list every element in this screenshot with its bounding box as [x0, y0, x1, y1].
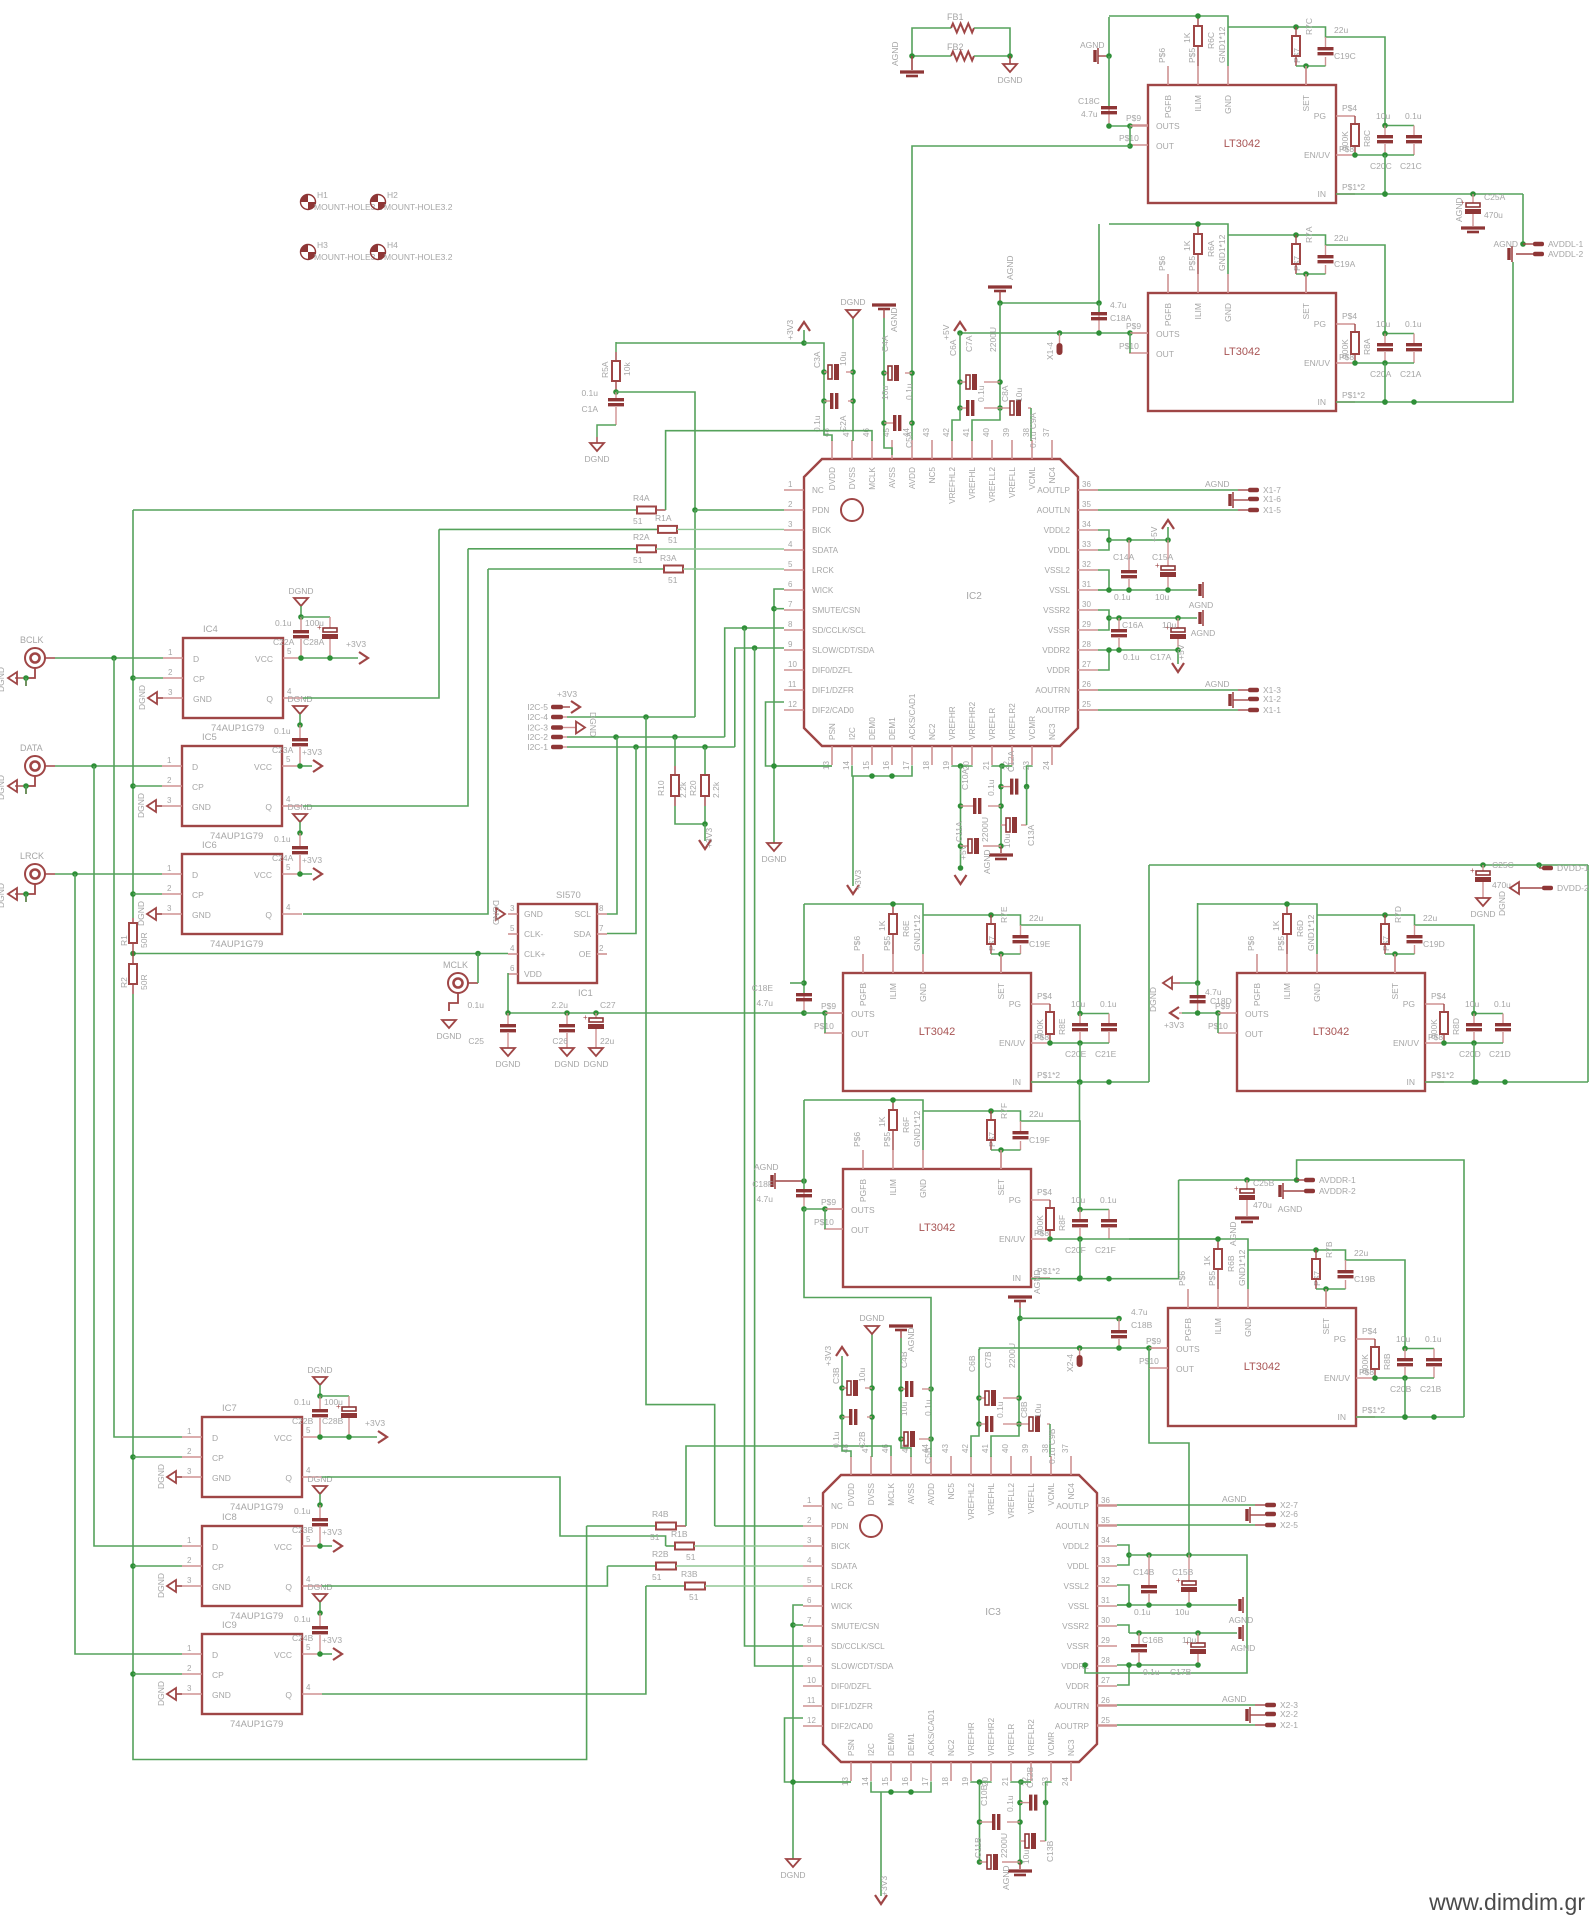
svg-text:22u: 22u [1029, 913, 1043, 923]
svg-text:C1A: C1A [581, 404, 598, 414]
svg-text:40: 40 [982, 428, 991, 437]
svg-text:X1-1: X1-1 [1263, 705, 1281, 715]
svg-text:X1-5: X1-5 [1263, 505, 1281, 515]
svg-text:GND: GND [1243, 1318, 1253, 1337]
svg-text:R8C: R8C [1362, 130, 1372, 147]
svg-text:19: 19 [942, 761, 951, 770]
svg-text:P$9: P$9 [1126, 113, 1141, 123]
svg-text:R20: R20 [688, 780, 698, 796]
svg-text:2: 2 [599, 944, 604, 953]
svg-text:AGND: AGND [1278, 1204, 1303, 1214]
svg-text:X2-1: X2-1 [1280, 1720, 1298, 1730]
svg-text:1K: 1K [1182, 32, 1192, 43]
svg-text:ILIM: ILIM [888, 1179, 898, 1196]
svg-text:0.1u: 0.1u [1405, 111, 1422, 121]
svg-text:+5V: +5V [1176, 644, 1186, 660]
svg-text:BICK: BICK [812, 526, 832, 535]
svg-text:R1: R1 [119, 935, 129, 946]
svg-text:AGND: AGND [1231, 1643, 1256, 1653]
svg-text:I2C: I2C [848, 727, 857, 740]
svg-text:+3V3: +3V3 [322, 1635, 342, 1645]
svg-text:AGND: AGND [1205, 679, 1230, 689]
svg-text:C17B: C17B [1170, 1667, 1192, 1677]
svg-text:DVDD-1: DVDD-1 [1557, 863, 1589, 873]
svg-text:C4A: C4A [880, 335, 890, 352]
svg-text:VSSL: VSSL [1049, 586, 1070, 595]
svg-text:AGND: AGND [1005, 255, 1015, 280]
svg-text:PGFB: PGFB [858, 983, 868, 1006]
svg-text:36: 36 [1082, 480, 1091, 489]
svg-text:R7F: R7F [999, 1103, 1009, 1119]
svg-text:OUT: OUT [851, 1225, 869, 1235]
svg-text:1: 1 [187, 1536, 192, 1545]
svg-text:31: 31 [1082, 580, 1091, 589]
svg-text:AGND: AGND [1229, 1615, 1254, 1625]
svg-text:0.1u: 0.1u [294, 1397, 311, 1407]
svg-text:22u: 22u [1334, 233, 1348, 243]
svg-text:470u: 470u [1484, 210, 1503, 220]
svg-text:DGND: DGND [780, 1870, 805, 1880]
svg-text:ACKS/CAD1: ACKS/CAD1 [908, 693, 917, 740]
svg-text:C20F: C20F [1065, 1245, 1086, 1255]
svg-text:CP: CP [193, 674, 205, 684]
svg-text:3: 3 [788, 520, 793, 529]
svg-text:2.2u: 2.2u [551, 1000, 568, 1010]
svg-text:1: 1 [167, 864, 172, 873]
svg-text:AGND: AGND [889, 307, 899, 332]
svg-text:17: 17 [902, 761, 911, 770]
svg-text:AOUTRP: AOUTRP [1055, 1722, 1090, 1731]
svg-text:18: 18 [922, 761, 931, 770]
svg-text:P$9: P$9 [821, 1197, 836, 1207]
svg-text:R6E: R6E [901, 920, 911, 937]
svg-text:34: 34 [1101, 1536, 1110, 1545]
svg-text:C19C: C19C [1334, 51, 1356, 61]
svg-text:OUTS: OUTS [851, 1205, 875, 1215]
svg-text:1: 1 [807, 1496, 812, 1505]
svg-text:OUTS: OUTS [1156, 121, 1180, 131]
svg-text:VCC: VCC [254, 762, 272, 772]
svg-text:8: 8 [788, 620, 793, 629]
svg-text:VREFLL: VREFLL [1008, 467, 1017, 498]
svg-text:4: 4 [306, 1683, 311, 1692]
svg-text:10u: 10u [1014, 388, 1024, 402]
svg-text:AOUTLN: AOUTLN [1056, 1522, 1089, 1531]
svg-text:IC3: IC3 [985, 1607, 1001, 1618]
svg-text:R6B: R6B [1226, 1255, 1236, 1272]
svg-text:C25A: C25A [1484, 192, 1506, 202]
svg-text:R6C: R6C [1206, 32, 1216, 49]
svg-text:10u: 10u [1155, 592, 1169, 602]
svg-text:C16A: C16A [1122, 620, 1144, 630]
svg-text:10u: 10u [1396, 1334, 1410, 1344]
svg-text:470u: 470u [1253, 1200, 1272, 1210]
svg-text:51: 51 [668, 575, 678, 585]
svg-text:4: 4 [788, 540, 793, 549]
svg-text:3: 3 [167, 904, 172, 913]
svg-text:X2-6: X2-6 [1280, 1509, 1298, 1519]
svg-text:43: 43 [922, 428, 931, 437]
svg-text:51: 51 [689, 1592, 699, 1602]
svg-text:36: 36 [1101, 1496, 1110, 1505]
svg-text:VSSR: VSSR [1048, 626, 1070, 635]
svg-text:C21A: C21A [1400, 369, 1422, 379]
svg-text:DIF2/CAD0: DIF2/CAD0 [812, 706, 854, 715]
svg-text:37: 37 [1042, 428, 1051, 437]
svg-text:SDA: SDA [574, 929, 592, 939]
svg-text:R6A: R6A [1206, 240, 1216, 257]
svg-text:9: 9 [788, 640, 793, 649]
svg-text:OUTS: OUTS [1245, 1009, 1269, 1019]
svg-text:AOUTRP: AOUTRP [1036, 706, 1071, 715]
svg-text:3: 3 [168, 688, 173, 697]
svg-text:24: 24 [1042, 761, 1051, 770]
svg-text:IN: IN [1407, 1077, 1416, 1087]
svg-text:DGND: DGND [307, 1474, 332, 1484]
svg-text:C5A: C5A [904, 431, 914, 448]
svg-text:4: 4 [286, 903, 291, 912]
svg-text:D: D [193, 654, 199, 664]
svg-text:22u: 22u [1354, 1248, 1368, 1258]
svg-text:21: 21 [982, 761, 991, 770]
svg-text:PDN: PDN [812, 506, 829, 515]
svg-text:DGND: DGND [1497, 891, 1507, 916]
svg-text:35: 35 [1101, 1516, 1110, 1525]
svg-text:R8F: R8F [1057, 1215, 1067, 1231]
svg-text:33: 33 [1082, 540, 1091, 549]
svg-text:VCML: VCML [1028, 467, 1037, 490]
svg-text:C27: C27 [600, 1000, 616, 1010]
svg-text:DGND: DGND [583, 1059, 608, 1069]
svg-text:2: 2 [187, 1664, 192, 1673]
svg-text:5: 5 [788, 560, 793, 569]
svg-text:P$5: P$5 [1276, 936, 1286, 951]
svg-text:GND: GND [918, 1179, 928, 1198]
svg-text:22u: 22u [1334, 25, 1348, 35]
svg-text:AVDD: AVDD [908, 467, 917, 489]
svg-text:I2C-2: I2C-2 [527, 732, 548, 742]
svg-text:Q: Q [285, 1473, 292, 1483]
svg-text:DGND: DGND [588, 712, 598, 737]
svg-text:DGND: DGND [307, 1365, 332, 1375]
svg-text:OUT: OUT [851, 1029, 869, 1039]
svg-text:DGND: DGND [287, 694, 312, 704]
svg-text:7: 7 [807, 1616, 812, 1625]
svg-text:DVSS: DVSS [867, 1482, 876, 1505]
svg-text:OUT: OUT [1156, 349, 1174, 359]
svg-text:AGND: AGND [1222, 1694, 1247, 1704]
svg-text:R4A: R4A [633, 493, 650, 503]
svg-text:+3V3: +3V3 [322, 1527, 342, 1537]
svg-text:VDDL2: VDDL2 [1044, 526, 1071, 535]
svg-text:VCC: VCC [274, 1542, 292, 1552]
svg-text:GND: GND [192, 910, 211, 920]
svg-text:SET: SET [1390, 983, 1400, 1000]
svg-text:C18E: C18E [752, 983, 774, 993]
svg-text:VDD: VDD [524, 969, 542, 979]
svg-text:11: 11 [788, 680, 797, 689]
svg-text:VSSL: VSSL [1068, 1602, 1089, 1611]
svg-text:GND: GND [1223, 95, 1233, 114]
svg-text:4.7u: 4.7u [1110, 300, 1127, 310]
svg-text:DGND: DGND [156, 1573, 166, 1598]
svg-text:900K: 900K [1429, 1019, 1439, 1039]
svg-text:14: 14 [842, 761, 851, 770]
svg-text:C21F: C21F [1095, 1245, 1116, 1255]
svg-text:C28A: C28A [303, 637, 325, 647]
svg-text:EN/UV: EN/UV [999, 1038, 1025, 1048]
svg-text:P$4: P$4 [1362, 1326, 1377, 1336]
svg-text:+3V3: +3V3 [557, 689, 577, 699]
svg-text:I2C-1: I2C-1 [527, 742, 548, 752]
svg-text:C11A: C11A [954, 821, 964, 842]
svg-text:46: 46 [881, 1444, 890, 1453]
svg-text:PSN: PSN [828, 723, 837, 740]
svg-text:5: 5 [807, 1576, 812, 1585]
svg-text:C18F: C18F [752, 1179, 773, 1189]
svg-text:LT3042: LT3042 [1313, 1026, 1350, 1038]
svg-text:X1-2: X1-2 [1263, 694, 1281, 704]
svg-text:AGND: AGND [1080, 40, 1105, 50]
svg-text:0.1u: 0.1u [831, 1431, 841, 1448]
svg-text:29: 29 [1082, 620, 1091, 629]
svg-text:CP: CP [212, 1453, 224, 1463]
svg-text:31: 31 [1101, 1596, 1110, 1605]
svg-text:VDDR: VDDR [1047, 666, 1070, 675]
svg-text:C19A: C19A [1334, 259, 1356, 269]
svg-text:10: 10 [807, 1676, 816, 1685]
svg-text:AVDDR-2: AVDDR-2 [1319, 1186, 1356, 1196]
svg-text:R6F: R6F [901, 1117, 911, 1133]
svg-text:0.1u: 0.1u [1114, 592, 1131, 602]
svg-text:DGND: DGND [0, 883, 6, 908]
svg-text:AGND: AGND [1032, 1269, 1042, 1294]
svg-text:D: D [212, 1542, 218, 1552]
svg-text:5: 5 [510, 924, 515, 933]
svg-text:+: + [1155, 561, 1160, 570]
svg-text:C28B: C28B [322, 1416, 344, 1426]
svg-text:R3B: R3B [681, 1569, 698, 1579]
svg-text:P$5: P$5 [1207, 1271, 1217, 1286]
svg-text:39: 39 [1002, 428, 1011, 437]
svg-text:5: 5 [286, 755, 291, 764]
svg-text:C8A: C8A [1000, 385, 1010, 402]
svg-text:900K: 900K [1340, 131, 1350, 151]
svg-text:OUTS: OUTS [1156, 329, 1180, 339]
svg-text:+3V3: +3V3 [785, 320, 795, 340]
svg-text:P$1*2: P$1*2 [1342, 182, 1365, 192]
svg-text:P$1*2: P$1*2 [1362, 1405, 1385, 1415]
svg-text:3: 3 [187, 1576, 192, 1585]
svg-text:SET: SET [996, 983, 1006, 1000]
svg-text:+3V3: +3V3 [346, 639, 366, 649]
svg-text:NC2: NC2 [947, 1739, 956, 1756]
svg-text:2: 2 [807, 1516, 812, 1525]
svg-text:0.1u: 0.1u [1005, 1795, 1015, 1812]
svg-text:DVDD: DVDD [847, 1483, 856, 1506]
svg-text:1K: 1K [1182, 240, 1192, 251]
svg-text:AGND: AGND [1228, 1221, 1238, 1246]
svg-text:1: 1 [187, 1427, 192, 1436]
svg-text:32: 32 [1082, 560, 1091, 569]
svg-text:ILIM: ILIM [1213, 1318, 1223, 1335]
svg-text:AOUTRN: AOUTRN [1054, 1702, 1089, 1711]
svg-text:+3V3: +3V3 [302, 855, 322, 865]
svg-text:VREFLL: VREFLL [1027, 1483, 1036, 1514]
svg-text:SD/CCLK/SCL: SD/CCLK/SCL [812, 626, 866, 635]
svg-text:15: 15 [862, 761, 871, 770]
svg-text:1K: 1K [877, 920, 887, 931]
svg-text:0.1u: 0.1u [274, 726, 291, 736]
svg-text:I2C-4: I2C-4 [527, 712, 548, 722]
svg-text:1: 1 [788, 480, 793, 489]
svg-text:2: 2 [167, 884, 172, 893]
svg-text:C12A: C12A [1006, 750, 1016, 772]
svg-text:VREFHL: VREFHL [987, 1483, 996, 1516]
svg-text:SET: SET [1301, 95, 1311, 112]
svg-text:P$10: P$10 [1119, 133, 1139, 143]
svg-text:74AUP1G79: 74AUP1G79 [230, 1611, 283, 1622]
svg-text:IC7: IC7 [222, 1403, 237, 1414]
svg-text:C19F: C19F [1029, 1135, 1050, 1145]
svg-text:DEM0: DEM0 [887, 1733, 896, 1756]
svg-text:SLOW/CDT/SDA: SLOW/CDT/SDA [831, 1662, 894, 1671]
svg-text:2200U: 2200U [999, 1833, 1009, 1858]
svg-text:P$4: P$4 [1342, 103, 1357, 113]
svg-text:26: 26 [1082, 680, 1091, 689]
svg-text:R2A: R2A [633, 532, 650, 542]
svg-text:SDATA: SDATA [812, 546, 839, 555]
svg-text:VSSL2: VSSL2 [1045, 566, 1071, 575]
svg-text:VREFHL2: VREFHL2 [967, 1483, 976, 1520]
svg-text:VREFLL2: VREFLL2 [988, 467, 997, 503]
svg-text:74AUP1G79: 74AUP1G79 [210, 831, 263, 842]
svg-text:VREFLR: VREFLR [1007, 1724, 1016, 1756]
svg-text:0.1u: 0.1u [986, 779, 996, 796]
svg-text:46: 46 [862, 428, 871, 437]
svg-text:EN/UV: EN/UV [999, 1234, 1025, 1244]
svg-text:1: 1 [167, 756, 172, 765]
svg-text:R2: R2 [119, 977, 129, 988]
svg-text:H4: H4 [387, 240, 398, 250]
svg-text:+: + [1176, 1576, 1181, 1585]
svg-text:SD/CCLK/SCL: SD/CCLK/SCL [831, 1642, 885, 1651]
svg-text:C19D: C19D [1423, 939, 1445, 949]
svg-text:P$6: P$6 [852, 1132, 862, 1147]
svg-text:+3V3: +3V3 [704, 828, 714, 848]
svg-text:NC3: NC3 [1067, 1739, 1076, 1756]
svg-text:16: 16 [901, 1777, 910, 1786]
svg-text:C23A: C23A [272, 745, 294, 755]
svg-text:Q: Q [265, 910, 272, 920]
svg-text:C18A: C18A [1110, 313, 1132, 323]
svg-text:C18B: C18B [1131, 1320, 1153, 1330]
svg-text:+3V3: +3V3 [302, 747, 322, 757]
svg-text:34: 34 [1082, 520, 1091, 529]
svg-text:0.1u: 0.1u [1405, 319, 1422, 329]
svg-text:0.1u: 0.1u [812, 415, 822, 432]
svg-text:P$5: P$5 [1187, 48, 1197, 63]
svg-text:9: 9 [807, 1656, 812, 1665]
svg-text:GND: GND [212, 1582, 231, 1592]
svg-text:NC5: NC5 [928, 467, 937, 484]
svg-text:C6A: C6A [948, 339, 958, 356]
svg-text:SMUTE/CSN: SMUTE/CSN [831, 1622, 879, 1631]
svg-text:900K: 900K [1035, 1019, 1045, 1039]
svg-text:LT3042: LT3042 [1224, 346, 1261, 358]
svg-text:GND1*12: GND1*12 [912, 1110, 922, 1147]
svg-text:10u: 10u [1182, 1635, 1196, 1645]
svg-text:AGND: AGND [754, 1162, 779, 1172]
svg-text:DGND: DGND [761, 854, 786, 864]
svg-text:D: D [212, 1433, 218, 1443]
svg-text:CP: CP [212, 1670, 224, 1680]
svg-text:AGND: AGND [1189, 600, 1214, 610]
svg-text:C10B: C10B [979, 1784, 989, 1806]
svg-text:NC: NC [812, 486, 824, 495]
svg-text:P$6: P$6 [1157, 256, 1167, 271]
svg-text:10u: 10u [857, 1368, 867, 1382]
svg-text:2200U: 2200U [980, 817, 990, 842]
svg-text:Q: Q [285, 1582, 292, 1592]
svg-text:DGND: DGND [156, 1681, 166, 1706]
svg-text:MCLK: MCLK [443, 960, 468, 970]
svg-text:P$4: P$4 [1431, 991, 1446, 1001]
svg-text:GND1*12: GND1*12 [912, 914, 922, 951]
svg-text:SI570: SI570 [556, 890, 581, 901]
svg-text:0.1u: 0.1u [1494, 999, 1511, 1009]
svg-text:VSSR2: VSSR2 [1043, 606, 1070, 615]
svg-text:R1B: R1B [671, 1529, 688, 1539]
svg-text:DGND: DGND [1148, 987, 1158, 1012]
svg-text:EN/UV: EN/UV [1304, 150, 1330, 160]
svg-text:C13B: C13B [1045, 1840, 1055, 1862]
svg-text:IC6: IC6 [202, 840, 217, 851]
svg-text:AVDDL-1: AVDDL-1 [1548, 239, 1584, 249]
svg-text:DGND: DGND [156, 1464, 166, 1489]
svg-text:PG: PG [1009, 999, 1021, 1009]
svg-text:6: 6 [788, 580, 793, 589]
svg-text:10u: 10u [1465, 999, 1479, 1009]
svg-text:AVDDR-1: AVDDR-1 [1319, 1175, 1356, 1185]
svg-text:LT3042: LT3042 [1244, 1361, 1281, 1373]
svg-text:OE: OE [579, 949, 592, 959]
svg-text:C21C: C21C [1400, 161, 1422, 171]
svg-text:OUT: OUT [1176, 1364, 1194, 1374]
svg-text:D: D [192, 870, 198, 880]
svg-text:D: D [212, 1650, 218, 1660]
svg-text:DGND: DGND [554, 1059, 579, 1069]
svg-text:R7E: R7E [999, 906, 1009, 923]
svg-text:0.1u: 0.1u [1143, 1667, 1160, 1677]
svg-text:X2-4: X2-4 [1065, 1354, 1075, 1372]
svg-text:GND: GND [212, 1690, 231, 1700]
svg-text:4.7u: 4.7u [756, 998, 773, 1008]
svg-text:PG: PG [1314, 319, 1326, 329]
svg-text:VSSR2: VSSR2 [1062, 1622, 1089, 1631]
svg-text:51: 51 [633, 555, 643, 565]
svg-text:VSSL2: VSSL2 [1064, 1582, 1090, 1591]
svg-text:GND1*12: GND1*12 [1217, 26, 1227, 63]
svg-text:AGND: AGND [1191, 628, 1216, 638]
svg-text:+: + [1234, 1184, 1239, 1193]
svg-text:IN: IN [1013, 1273, 1022, 1283]
svg-text:ILIM: ILIM [1193, 303, 1203, 320]
svg-text:R5A: R5A [600, 361, 610, 378]
svg-text:2: 2 [788, 500, 793, 509]
svg-text:22u: 22u [600, 1036, 614, 1046]
svg-text:0.1u: 0.1u [467, 1000, 484, 1010]
